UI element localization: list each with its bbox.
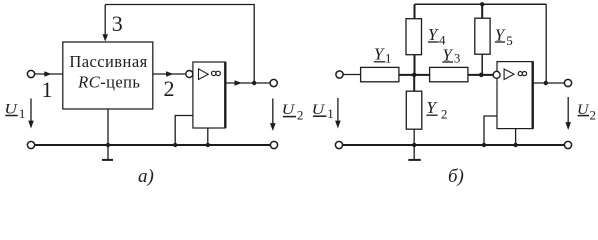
svg-text:3: 3 bbox=[454, 51, 461, 66]
svg-text:4: 4 bbox=[439, 32, 446, 47]
svg-text:1: 1 bbox=[42, 77, 53, 102]
svg-text:RC-цепь: RC-цепь bbox=[77, 72, 140, 91]
svg-text:5: 5 bbox=[506, 33, 513, 48]
svg-text:1: 1 bbox=[385, 51, 392, 66]
svg-text:1: 1 bbox=[19, 106, 26, 121]
svg-text:1: 1 bbox=[327, 106, 334, 121]
svg-text:Y: Y bbox=[426, 98, 437, 117]
svg-text:2: 2 bbox=[441, 106, 448, 121]
svg-text:Пассивная: Пассивная bbox=[69, 52, 147, 71]
svg-text:3: 3 bbox=[112, 11, 123, 36]
svg-text:U: U bbox=[282, 102, 296, 118]
svg-text:2: 2 bbox=[590, 107, 597, 122]
svg-text:2: 2 bbox=[297, 108, 304, 123]
svg-text:Y: Y bbox=[374, 45, 385, 64]
svg-text:а): а) bbox=[138, 166, 154, 187]
svg-text:2: 2 bbox=[164, 76, 175, 101]
svg-text:б): б) bbox=[448, 166, 464, 187]
